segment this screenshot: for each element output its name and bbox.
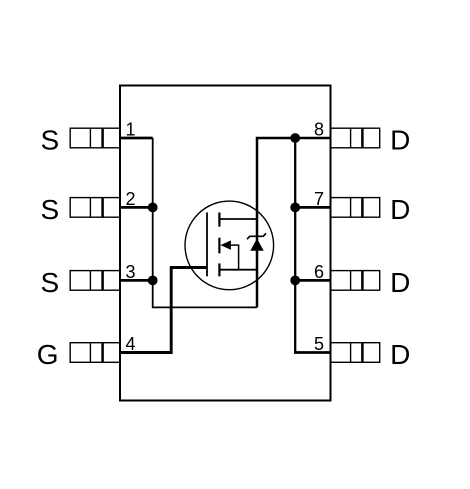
wire source bus (pins 1-2-3 to mosfet source): [153, 138, 257, 307]
junction node pin3: [148, 276, 158, 286]
pin 5 lead box: [331, 343, 380, 363]
svg-text:1: 1: [126, 119, 136, 139]
transistor envelope circle: [185, 201, 274, 290]
wire pin2 stub: [120, 206, 153, 209]
svg-text:S: S: [41, 267, 60, 298]
channel segment bottom: [218, 263, 220, 276]
body diode anode triangle: [250, 239, 263, 251]
svg-text:D: D: [390, 125, 410, 156]
wire drain bus (right): [294, 138, 296, 353]
wire pin5 stub: [294, 351, 331, 354]
wire gate path (pin 4 to gate): [120, 268, 206, 353]
pin 6 lead box: [331, 271, 380, 291]
pin 7 lead box: [331, 198, 380, 218]
junction node pin7: [290, 203, 300, 213]
junction node pin8: [290, 133, 300, 143]
svg-text:S: S: [41, 194, 60, 225]
package outline (SO8 body): [120, 86, 331, 401]
gate electrode bar: [206, 213, 208, 277]
pin 4 lead box: [70, 343, 120, 363]
svg-text:6: 6: [314, 262, 324, 282]
pin 2 lead box: [70, 198, 120, 218]
channel segment top: [218, 213, 220, 227]
source lead: [219, 269, 257, 271]
svg-text:7: 7: [314, 189, 324, 209]
svg-text:8: 8: [314, 119, 324, 139]
junction node pin2: [148, 203, 158, 213]
wire drain vertical + pin8 stub: [257, 138, 331, 307]
svg-text:D: D: [390, 339, 410, 370]
svg-text:G: G: [37, 339, 59, 370]
wire pin7 stub: [295, 206, 330, 209]
body connection wire: [231, 245, 239, 270]
wire pin6 stub: [295, 279, 330, 282]
body arrow (substrate): [220, 240, 231, 249]
svg-text:S: S: [41, 125, 60, 156]
svg-text:D: D: [390, 194, 410, 225]
channel segment middle: [218, 238, 220, 254]
svg-text:2: 2: [126, 189, 136, 209]
svg-text:D: D: [390, 267, 410, 298]
svg-text:5: 5: [314, 334, 324, 354]
body diode (zener) cathode bar: [247, 233, 266, 239]
wire pin1 stub: [120, 137, 153, 140]
drain lead: [219, 218, 257, 220]
junction node pin6: [290, 276, 300, 286]
pin 3 lead box: [70, 271, 120, 291]
pin 1 lead box: [70, 128, 120, 148]
pin 8 lead box: [331, 128, 380, 148]
wire pin3 stub: [120, 279, 153, 282]
svg-text:3: 3: [126, 262, 136, 282]
svg-text:4: 4: [126, 334, 136, 354]
